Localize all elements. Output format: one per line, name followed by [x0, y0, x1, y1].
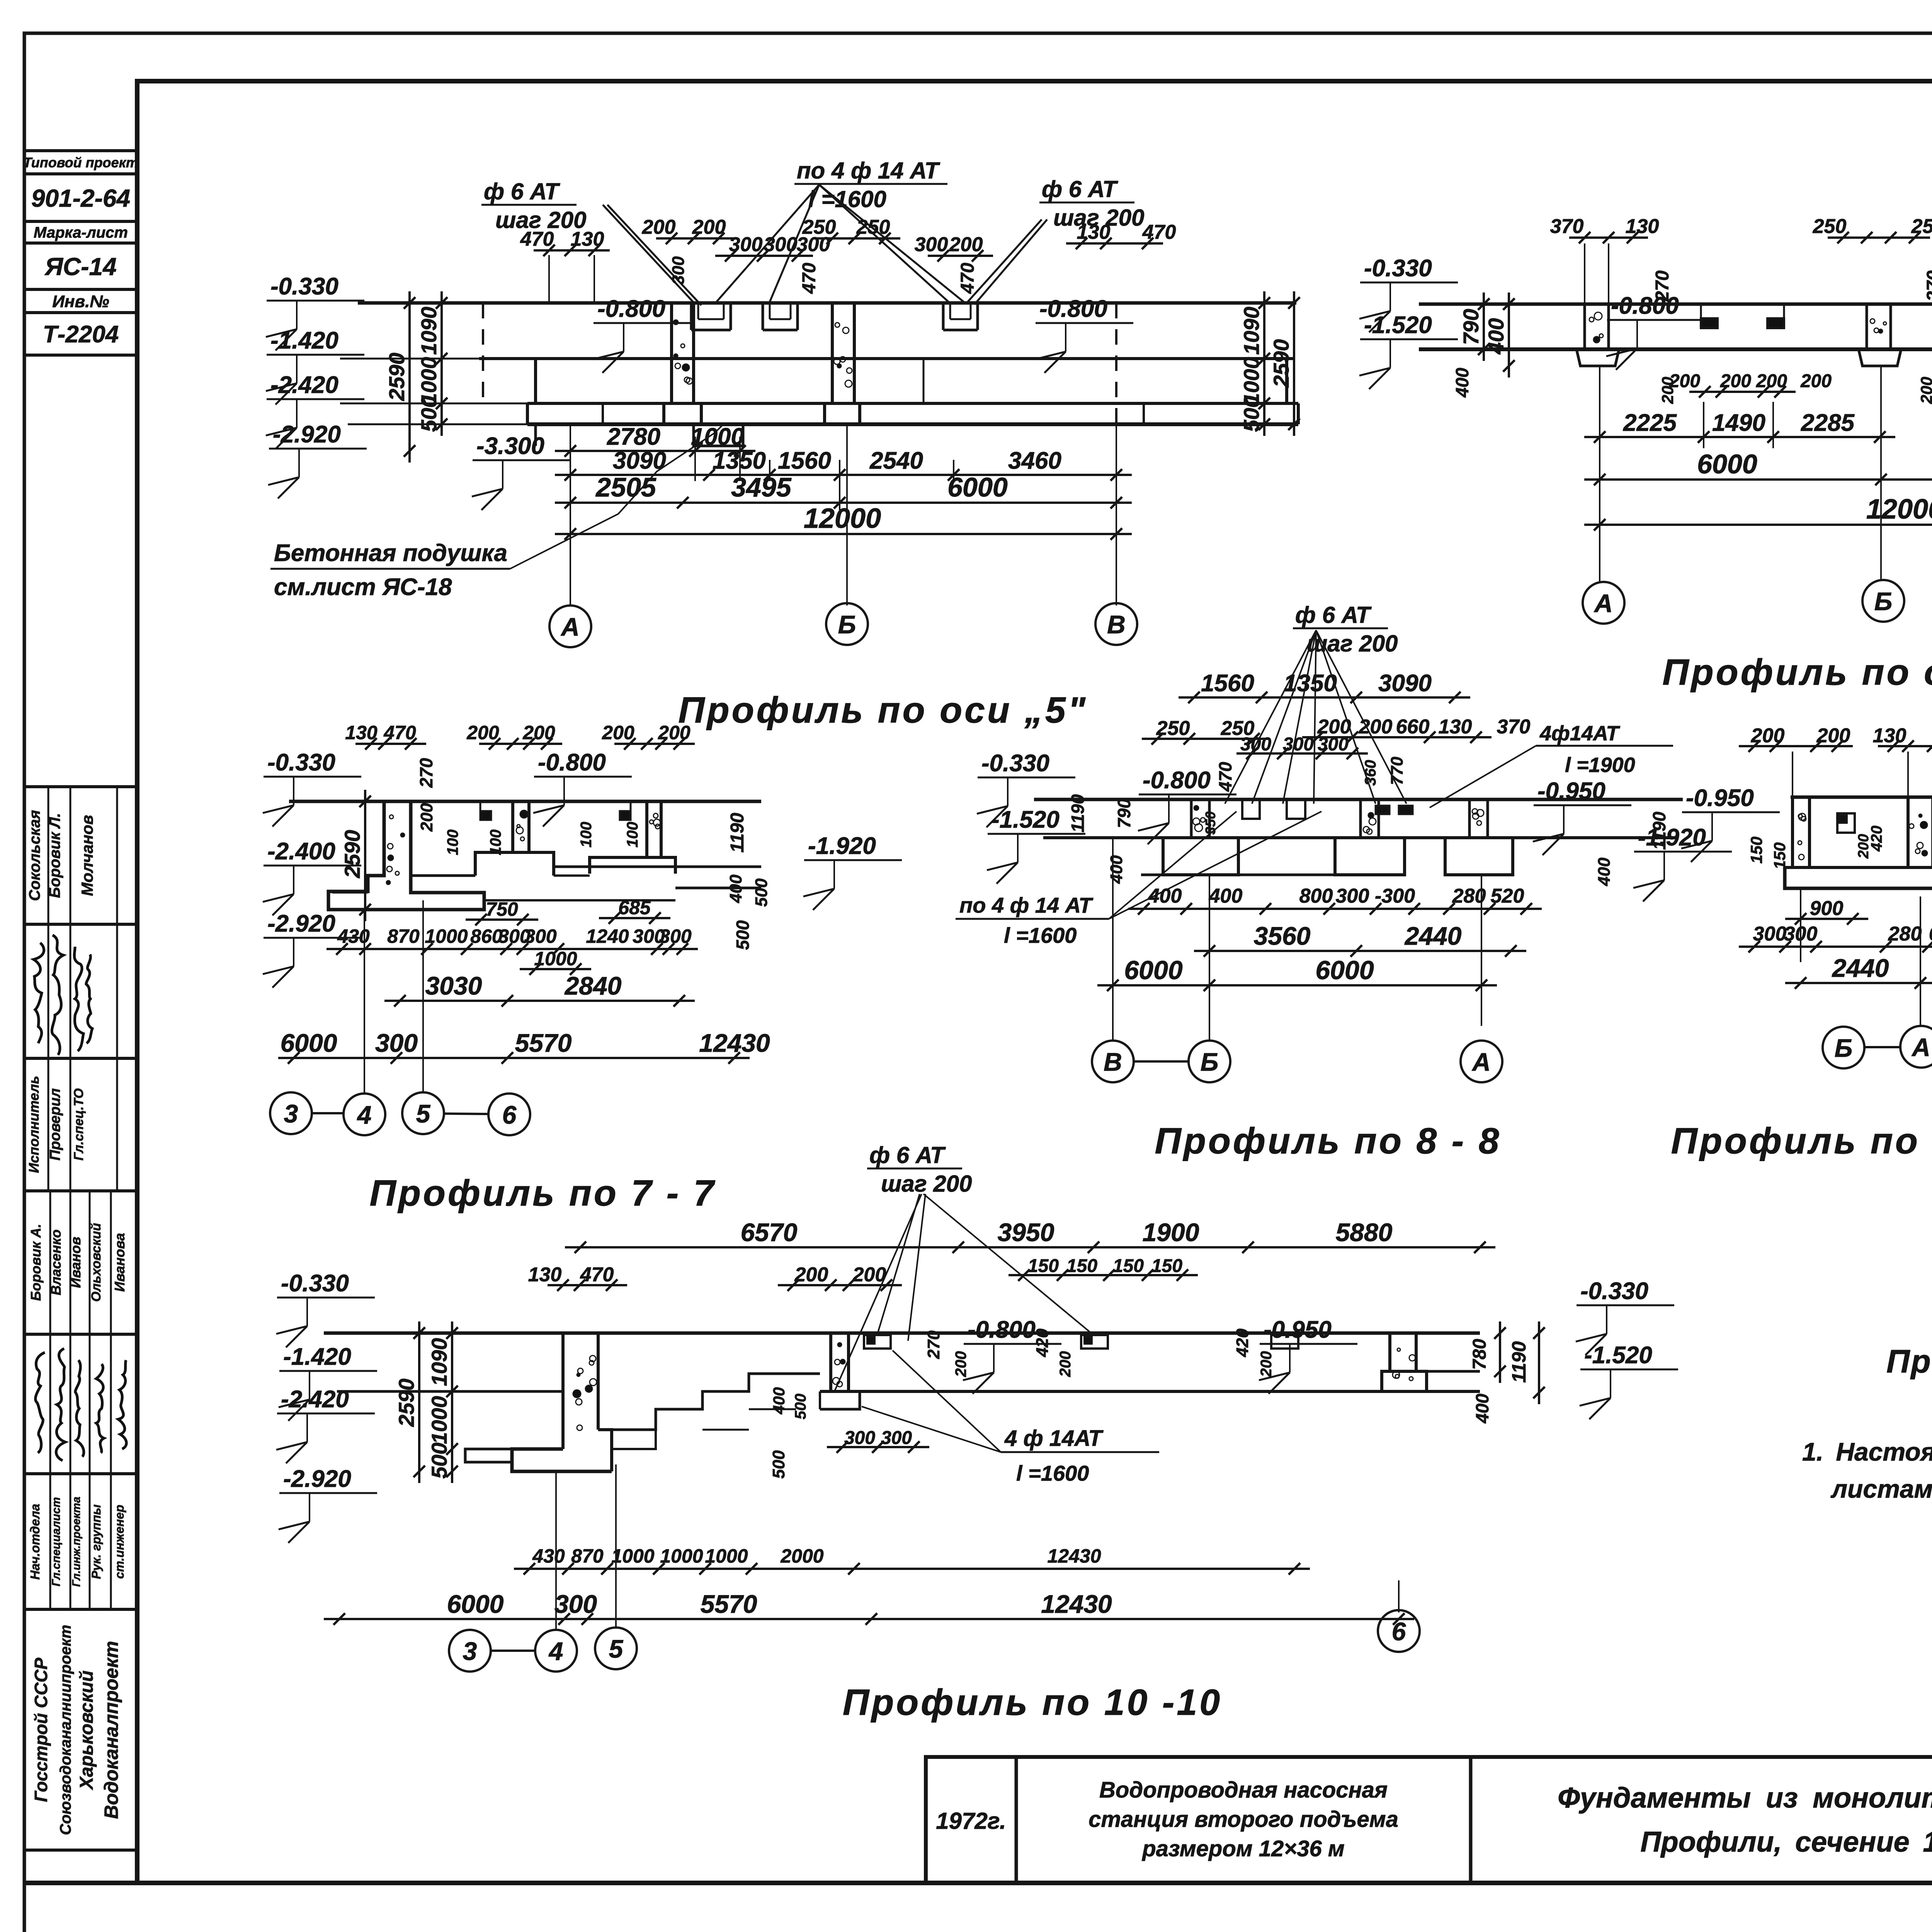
svg-text:130: 130 — [1077, 221, 1111, 243]
svg-text:500: 500 — [427, 1442, 451, 1478]
svg-text:2540: 2540 — [869, 447, 923, 474]
svg-text:12430: 12430 — [1047, 1545, 1101, 1567]
svg-text:3950: 3950 — [998, 1218, 1054, 1247]
svg-text:130: 130 — [1626, 215, 1659, 238]
svg-text:350: 350 — [1202, 811, 1218, 835]
svg-text:5880: 5880 — [1336, 1218, 1393, 1247]
svg-text:660: 660 — [1396, 716, 1430, 738]
svg-text:-3.300: -3.300 — [476, 433, 544, 459]
svg-text:-2.920: -2.920 — [267, 910, 335, 937]
svg-text:200: 200 — [642, 216, 676, 238]
svg-text:200: 200 — [1720, 371, 1751, 391]
svg-text:400: 400 — [1209, 885, 1243, 907]
svg-text:Марка-лист: Марка-лист — [34, 224, 128, 241]
svg-text:Исполнитель: Исполнитель — [26, 1076, 42, 1173]
svg-text:300: 300 — [764, 233, 798, 256]
svg-text:520: 520 — [1491, 885, 1524, 907]
svg-text:по 4 ф 14 АТ: по 4 ф 14 АТ — [797, 158, 940, 184]
svg-text:130: 130 — [528, 1264, 562, 1286]
svg-text:300: 300 — [1336, 885, 1369, 907]
svg-text:400: 400 — [726, 874, 745, 903]
svg-text:200: 200 — [794, 1264, 828, 1286]
svg-text:200: 200 — [852, 1264, 886, 1286]
svg-text:870: 870 — [387, 925, 420, 947]
svg-text:100: 100 — [578, 822, 595, 848]
svg-text:500: 500 — [752, 878, 771, 907]
svg-text:5570: 5570 — [701, 1590, 757, 1618]
svg-text:l =1600: l =1600 — [1016, 1461, 1089, 1485]
svg-text:Фундаменты из монолитного б: Фундаменты из монолитного бетона. — [1558, 1782, 1932, 1814]
svg-text:500: 500 — [1239, 396, 1264, 432]
svg-text:6: 6 — [1392, 1617, 1406, 1646]
svg-text:300: 300 — [844, 1428, 875, 1448]
svg-text:6: 6 — [502, 1100, 517, 1129]
svg-text:1. Настоящий чертеж рассма: 1. Настоящий чертеж рассматривать совмес… — [1802, 1437, 1932, 1466]
svg-text:870: 870 — [571, 1545, 604, 1567]
svg-text:12430: 12430 — [699, 1029, 770, 1057]
svg-text:Профиль по 10 -10: Профиль по 10 -10 — [843, 1682, 1222, 1723]
svg-text:-2.400: -2.400 — [267, 838, 335, 865]
svg-text:Проверил: Проверил — [47, 1088, 63, 1161]
svg-text:790: 790 — [1114, 798, 1134, 828]
svg-text:1000: 1000 — [705, 1545, 748, 1567]
svg-text:1900: 1900 — [1143, 1218, 1199, 1247]
svg-text:-0.800: -0.800 — [1039, 296, 1107, 322]
svg-text:200: 200 — [1855, 834, 1872, 859]
svg-text:130: 130 — [1873, 724, 1906, 747]
svg-text:Профиль по 9 - 9: Профиль по 9 - 9 — [1671, 1121, 1932, 1162]
svg-text:1560: 1560 — [1201, 670, 1254, 697]
svg-text:300: 300 — [729, 233, 763, 256]
svg-text:900: 900 — [1810, 897, 1844, 920]
svg-text:400: 400 — [1472, 1393, 1492, 1423]
svg-text:300: 300 — [1240, 734, 1271, 755]
svg-text:Союзводоканалниипроект: Союзводоканалниипроект — [57, 1625, 74, 1835]
svg-text:2440: 2440 — [1832, 954, 1889, 982]
svg-text:200: 200 — [522, 722, 555, 743]
svg-text:А: А — [1594, 589, 1613, 617]
svg-text:см.лист ЯС-18: см.лист ЯС-18 — [274, 574, 452, 600]
svg-text:Боровик А.: Боровик А. — [28, 1224, 44, 1301]
svg-text:Ольховский: Ольховский — [89, 1223, 104, 1302]
svg-text:150: 150 — [1066, 1256, 1097, 1276]
svg-text:-0.330: -0.330 — [1364, 255, 1432, 282]
svg-text:400: 400 — [1107, 855, 1126, 884]
svg-text:по 4 ф 14 АТ: по 4 ф 14 АТ — [959, 893, 1094, 917]
svg-text:470: 470 — [520, 228, 554, 250]
svg-text:1972г.: 1972г. — [936, 1808, 1006, 1834]
svg-text:3460: 3460 — [1008, 447, 1061, 474]
svg-text:3560: 3560 — [1254, 922, 1311, 950]
svg-text:250: 250 — [856, 216, 890, 238]
svg-text:4 ф 14АТ: 4 ф 14АТ — [1004, 1426, 1104, 1451]
svg-text:270: 270 — [924, 1330, 943, 1359]
svg-text:Рук. группы: Рук. группы — [89, 1504, 103, 1579]
svg-text:Б: Б — [1201, 1048, 1219, 1076]
svg-text:ф 6 АТ: ф 6 АТ — [1295, 602, 1372, 628]
svg-text:4: 4 — [357, 1100, 372, 1129]
svg-text:Б: Б — [1874, 587, 1893, 616]
svg-text:ф 6 АТ: ф 6 АТ — [484, 179, 560, 204]
svg-text:-1.520: -1.520 — [1364, 312, 1432, 338]
svg-text:470: 470 — [957, 263, 978, 294]
svg-text:Б: Б — [1835, 1034, 1853, 1062]
svg-text:200: 200 — [1751, 724, 1785, 747]
svg-text:200: 200 — [1669, 371, 1700, 391]
svg-text:200: 200 — [692, 216, 726, 238]
svg-text:Профиль по 7 - 7: Профиль по 7 - 7 — [370, 1173, 716, 1214]
svg-text:200: 200 — [1917, 377, 1932, 404]
svg-text:3030: 3030 — [425, 971, 482, 1000]
svg-text:1000: 1000 — [660, 1545, 703, 1567]
svg-text:5: 5 — [609, 1634, 624, 1663]
svg-text:1000: 1000 — [427, 1396, 451, 1444]
svg-text:2590: 2590 — [394, 1379, 418, 1427]
svg-text:1560: 1560 — [778, 447, 831, 474]
svg-text:-0.800: -0.800 — [1143, 767, 1211, 794]
svg-text:6000: 6000 — [1124, 956, 1182, 985]
svg-text:3: 3 — [463, 1637, 477, 1665]
svg-text:130: 130 — [571, 228, 604, 250]
svg-text:300: 300 — [669, 256, 688, 285]
svg-text:А: А — [560, 612, 580, 641]
svg-text:Водоканалпроект: Водоканалпроект — [100, 1641, 122, 1819]
svg-text:Гл.инж.проекта: Гл.инж.проекта — [70, 1497, 83, 1587]
svg-text:620: 620 — [1929, 923, 1932, 945]
svg-text:370: 370 — [1497, 716, 1531, 738]
svg-text:2590: 2590 — [340, 830, 364, 879]
svg-text:-1.920: -1.920 — [1638, 824, 1706, 851]
svg-text:500: 500 — [769, 1450, 788, 1479]
svg-text:-2.920: -2.920 — [283, 1466, 351, 1492]
svg-text:430: 430 — [532, 1545, 565, 1567]
svg-text:5: 5 — [416, 1099, 431, 1128]
svg-text:470: 470 — [1142, 221, 1176, 243]
svg-text:300: 300 — [375, 1029, 418, 1057]
svg-text:420: 420 — [1033, 1328, 1052, 1357]
svg-text:шаг 200: шаг 200 — [881, 1171, 972, 1197]
svg-text:Власенко: Власенко — [48, 1230, 64, 1295]
svg-text:Профили, сечение 11-11: Профили, сечение 11-11 — [1640, 1826, 1932, 1858]
svg-text:420: 420 — [1233, 1328, 1252, 1357]
svg-text:150: 150 — [1028, 1256, 1059, 1276]
svg-text:-1.520: -1.520 — [992, 806, 1060, 833]
svg-text:6000: 6000 — [281, 1029, 337, 1057]
svg-text:270: 270 — [416, 758, 436, 788]
svg-text:100: 100 — [487, 830, 504, 855]
svg-text:Гл.спец.ТО: Гл.спец.ТО — [71, 1088, 86, 1161]
svg-text:150: 150 — [1113, 1256, 1144, 1276]
svg-text:790: 790 — [1459, 309, 1483, 345]
svg-text:Боровик Л.: Боровик Л. — [46, 813, 63, 898]
svg-text:ст.инженер: ст.инженер — [112, 1505, 126, 1579]
svg-text:400: 400 — [770, 1387, 788, 1415]
svg-text:-2.420: -2.420 — [281, 1386, 349, 1413]
svg-text:3090: 3090 — [1378, 670, 1432, 697]
svg-text:1090: 1090 — [427, 1338, 451, 1386]
svg-text:200: 200 — [1756, 371, 1787, 391]
svg-text:1000: 1000 — [691, 423, 744, 450]
svg-text:370: 370 — [1550, 215, 1584, 238]
svg-text:-0.800: -0.800 — [597, 296, 665, 322]
svg-text:Харьковский: Харьковский — [77, 1670, 97, 1791]
svg-text:470: 470 — [580, 1264, 614, 1286]
svg-text:-1.420: -1.420 — [283, 1344, 351, 1370]
svg-text:470: 470 — [799, 263, 820, 294]
svg-text:1190: 1190 — [1508, 1341, 1530, 1383]
svg-text:1190: 1190 — [727, 813, 748, 853]
svg-text:1240: 1240 — [586, 925, 629, 947]
svg-text:2590: 2590 — [384, 353, 409, 401]
svg-text:130: 130 — [1439, 716, 1472, 738]
svg-text:100: 100 — [624, 822, 641, 848]
svg-text:ЯС-14: ЯС-14 — [44, 253, 116, 281]
svg-text:Инв.№: Инв.№ — [52, 292, 109, 311]
svg-text:500: 500 — [733, 920, 753, 950]
svg-text:1350: 1350 — [1284, 670, 1337, 697]
svg-text:400: 400 — [1484, 318, 1508, 354]
svg-text:400: 400 — [1452, 367, 1472, 398]
svg-text:-0.330: -0.330 — [281, 1270, 349, 1297]
svg-text:-0.800: -0.800 — [1611, 293, 1679, 319]
svg-text:-1.420: -1.420 — [270, 327, 338, 354]
svg-text:470: 470 — [383, 722, 416, 743]
svg-text:-0.330: -0.330 — [1580, 1278, 1648, 1304]
svg-text:А: А — [1471, 1048, 1491, 1076]
svg-text:1000: 1000 — [425, 925, 468, 947]
svg-text:750: 750 — [486, 898, 518, 920]
svg-text:-0.950: -0.950 — [1264, 1316, 1332, 1343]
svg-text:Т-2204: Т-2204 — [43, 321, 119, 348]
svg-text:размером 12×36 м: размером 12×36 м — [1141, 1836, 1344, 1861]
svg-text:130: 130 — [345, 722, 378, 743]
svg-text:770: 770 — [1388, 757, 1406, 785]
svg-text:-0.950: -0.950 — [1686, 785, 1754, 811]
svg-text:12000: 12000 — [804, 503, 881, 534]
svg-text:300: 300 — [1753, 923, 1787, 945]
svg-text:6000: 6000 — [1697, 449, 1757, 479]
svg-text:В: В — [1104, 1048, 1122, 1076]
svg-text:200: 200 — [949, 233, 983, 256]
svg-text:1000: 1000 — [611, 1545, 654, 1567]
svg-text:А: А — [1911, 1033, 1930, 1061]
svg-text:станция второго подъема: станция второго подъема — [1088, 1807, 1398, 1832]
svg-text:Иванов: Иванов — [68, 1237, 83, 1288]
svg-text:ф 6 АТ: ф 6 АТ — [1042, 176, 1118, 202]
svg-text:270: 270 — [1923, 270, 1932, 302]
svg-text:шаг 200: шаг 200 — [1307, 631, 1398, 656]
svg-text:1190: 1190 — [1649, 811, 1669, 850]
svg-text:2840: 2840 — [564, 971, 622, 1000]
svg-text:300: 300 — [1318, 734, 1349, 755]
svg-text:2000: 2000 — [780, 1545, 823, 1567]
svg-text:Б: Б — [838, 610, 856, 639]
svg-text:Госстрой СССР: Госстрой СССР — [31, 1658, 51, 1802]
svg-text:-1.520: -1.520 — [1584, 1342, 1652, 1369]
svg-text:2590: 2590 — [1269, 339, 1293, 388]
svg-text:200: 200 — [1800, 371, 1832, 391]
svg-text:-0.950: -0.950 — [1537, 778, 1605, 804]
svg-text:200: 200 — [1816, 724, 1850, 747]
svg-text:280: 280 — [1888, 923, 1922, 945]
svg-text:200: 200 — [1057, 1351, 1074, 1378]
svg-text:780: 780 — [1469, 1339, 1490, 1370]
svg-text:1090: 1090 — [417, 307, 441, 355]
svg-text:300: 300 — [915, 233, 948, 256]
svg-text:300: 300 — [881, 1428, 912, 1448]
svg-text:12000: 12000 — [1866, 494, 1932, 525]
svg-text:1490: 1490 — [1712, 410, 1765, 436]
svg-text:-2.920: -2.920 — [273, 421, 341, 448]
svg-text:ф 6 АТ: ф 6 АТ — [869, 1142, 946, 1168]
svg-text:200: 200 — [466, 722, 499, 743]
svg-text:200: 200 — [1359, 716, 1393, 738]
svg-text:685: 685 — [618, 897, 651, 918]
svg-text:Молчанов: Молчанов — [78, 815, 96, 896]
svg-text:6000: 6000 — [947, 472, 1008, 502]
svg-text:250: 250 — [1911, 215, 1932, 238]
svg-text:2440: 2440 — [1404, 922, 1462, 950]
svg-text:4ф14АТ: 4ф14АТ — [1539, 722, 1620, 745]
svg-text:Иванова: Иванова — [112, 1233, 128, 1292]
svg-text:800: 800 — [1299, 885, 1333, 907]
svg-text:6570: 6570 — [741, 1218, 798, 1247]
svg-text:901-2-64: 901-2-64 — [31, 184, 130, 212]
svg-text:Профиль по оси „6": Профиль по оси „6" — [1662, 652, 1932, 693]
svg-text:Примечания:: Примечания: — [1886, 1343, 1932, 1379]
svg-text:250: 250 — [802, 216, 836, 238]
svg-text:12430: 12430 — [1041, 1590, 1112, 1618]
svg-text:3: 3 — [284, 1099, 298, 1128]
svg-text:470: 470 — [1215, 762, 1235, 792]
svg-text:Профиль по 8 - 8: Профиль по 8 - 8 — [1155, 1121, 1502, 1162]
svg-text:-0.800: -0.800 — [538, 749, 606, 776]
svg-text:l =1600: l =1600 — [1004, 923, 1077, 947]
svg-text:Бетонная подушка: Бетонная подушка — [274, 540, 507, 566]
svg-text:150: 150 — [1151, 1256, 1182, 1276]
svg-text:Профиль по оси „5": Профиль по оси „5" — [678, 690, 1087, 731]
svg-text:5570: 5570 — [515, 1029, 572, 1057]
svg-text:500: 500 — [792, 1394, 809, 1420]
svg-text:100: 100 — [444, 830, 461, 855]
svg-text:200: 200 — [658, 722, 690, 743]
svg-text:Типовой проект: Типовой проект — [23, 155, 138, 170]
svg-text:150: 150 — [1747, 837, 1765, 864]
svg-text:400: 400 — [1148, 885, 1182, 907]
svg-text:Водопроводная насосная: Водопроводная насосная — [1099, 1777, 1388, 1803]
svg-text:500: 500 — [417, 396, 441, 432]
svg-text:-0.330: -0.330 — [270, 273, 338, 300]
svg-text:Нач.отдела: Нач.отдела — [28, 1504, 42, 1580]
svg-text:2285: 2285 — [1801, 410, 1855, 436]
svg-text:l =1900: l =1900 — [1565, 753, 1635, 777]
svg-text:-300: -300 — [1375, 885, 1415, 907]
svg-text:Гл.специалист: Гл.специалист — [50, 1497, 63, 1586]
svg-text:В: В — [1107, 610, 1126, 639]
svg-text:200: 200 — [1258, 1351, 1275, 1378]
svg-text:400: 400 — [1595, 857, 1614, 886]
svg-text:2225: 2225 — [1623, 410, 1677, 436]
svg-text:200: 200 — [417, 803, 436, 832]
svg-text:-0.330: -0.330 — [267, 749, 335, 776]
svg-text:150: 150 — [1770, 842, 1789, 869]
svg-text:4: 4 — [548, 1637, 563, 1665]
svg-text:250: 250 — [1156, 717, 1190, 740]
svg-text:300: 300 — [659, 925, 692, 947]
svg-text:200: 200 — [952, 1351, 969, 1378]
svg-text:360: 360 — [1362, 760, 1379, 786]
svg-text:листами ЯС -12 , ЯС -13.: листами ЯС -12 , ЯС -13. — [1830, 1475, 1932, 1503]
svg-text:300: 300 — [554, 1590, 597, 1618]
svg-text:1090: 1090 — [1239, 307, 1264, 355]
svg-text:-0.800: -0.800 — [968, 1316, 1036, 1343]
svg-text:300: 300 — [1283, 734, 1314, 755]
svg-text:300: 300 — [524, 925, 557, 947]
svg-text:200: 200 — [602, 722, 634, 743]
svg-text:6000: 6000 — [447, 1590, 504, 1618]
svg-text:-1.920: -1.920 — [808, 833, 876, 859]
svg-text:-2.420: -2.420 — [270, 372, 338, 398]
svg-text:2505: 2505 — [595, 472, 656, 502]
svg-text:250: 250 — [1813, 215, 1847, 238]
svg-text:-0.330: -0.330 — [981, 750, 1049, 777]
svg-text:6000: 6000 — [1315, 956, 1374, 985]
svg-text:2780: 2780 — [607, 423, 660, 450]
svg-text:1190: 1190 — [1068, 794, 1088, 832]
svg-text:Сокольская: Сокольская — [26, 810, 43, 901]
